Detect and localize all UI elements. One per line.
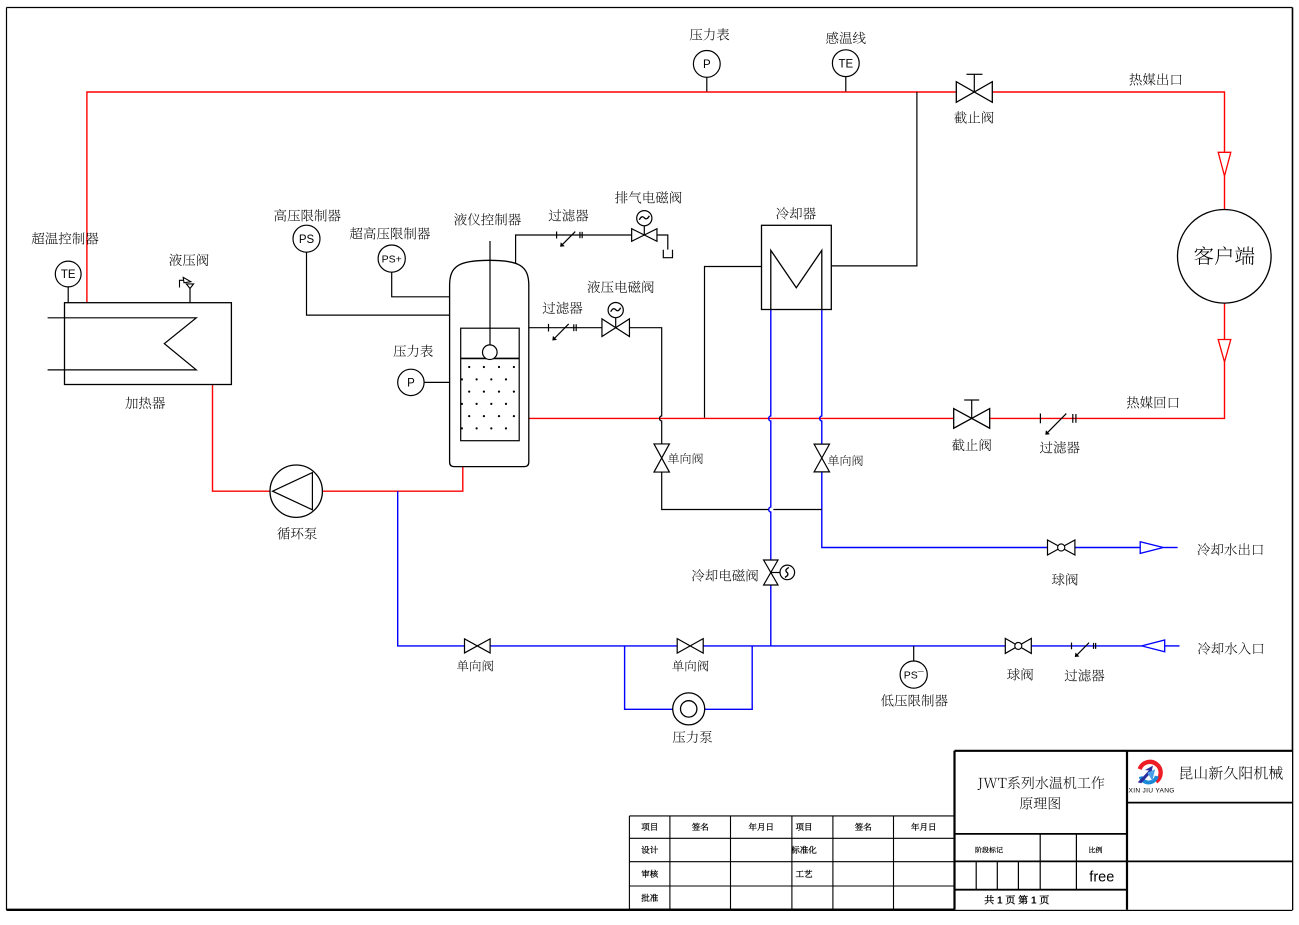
svg-text:XIN JIU YANG: XIN JIU YANG xyxy=(1129,788,1175,795)
svg-text:单向阀: 单向阀 xyxy=(828,452,864,469)
svg-text:工艺: 工艺 xyxy=(795,868,813,880)
svg-text:排气电磁阀: 排气电磁阀 xyxy=(615,187,683,207)
svg-text:P: P xyxy=(407,378,415,390)
svg-text:低压限制器: 低压限制器 xyxy=(881,690,949,710)
svg-text:阶段标记: 阶段标记 xyxy=(975,846,1003,856)
svg-text:超温控制器: 超温控制器 xyxy=(31,228,99,248)
svg-text:球阀: 球阀 xyxy=(1052,569,1079,589)
svg-text:冷却水入口: 冷却水入口 xyxy=(1197,638,1265,658)
svg-text:循环泵: 循环泵 xyxy=(277,523,318,543)
svg-text:过滤器: 过滤器 xyxy=(1040,437,1081,457)
svg-text:PS+: PS+ xyxy=(382,253,402,265)
svg-text:原理图: 原理图 xyxy=(1019,794,1061,814)
svg-text:客户端: 客户端 xyxy=(1194,240,1256,270)
svg-text:热媒回口: 热媒回口 xyxy=(1126,392,1180,412)
svg-text:free: free xyxy=(1089,870,1114,886)
svg-text:比例: 比例 xyxy=(1089,846,1103,856)
svg-text:冷却器: 冷却器 xyxy=(776,203,817,223)
svg-text:单向阀: 单向阀 xyxy=(457,657,495,675)
svg-text:年月日: 年月日 xyxy=(748,821,774,833)
svg-text:PS: PS xyxy=(299,234,315,246)
svg-text:液压电磁阀: 液压电磁阀 xyxy=(587,276,655,296)
svg-text:单向阀: 单向阀 xyxy=(668,450,704,467)
svg-text:签名: 签名 xyxy=(854,821,873,833)
svg-text:过滤器: 过滤器 xyxy=(1064,665,1105,685)
svg-text:签名: 签名 xyxy=(691,821,710,833)
svg-text:项目: 项目 xyxy=(641,821,658,833)
svg-text:昆山新久阳机械: 昆山新久阳机械 xyxy=(1178,763,1283,784)
svg-text:审核: 审核 xyxy=(641,868,659,880)
svg-text:单向阀: 单向阀 xyxy=(672,657,710,675)
svg-text:JWT系列水温机工作: JWT系列水温机工作 xyxy=(977,773,1105,793)
svg-text:项目: 项目 xyxy=(795,821,812,833)
svg-text:截止阀: 截止阀 xyxy=(951,434,992,454)
svg-text:过滤器: 过滤器 xyxy=(548,205,589,225)
svg-text:热媒出口: 热媒出口 xyxy=(1129,69,1183,89)
svg-text:液仪控制器: 液仪控制器 xyxy=(454,209,522,229)
svg-text:球阀: 球阀 xyxy=(1007,664,1034,684)
svg-text:年月日: 年月日 xyxy=(911,821,937,833)
svg-text:高压限制器: 高压限制器 xyxy=(274,205,342,225)
svg-text:冷却水出口: 冷却水出口 xyxy=(1197,539,1265,559)
svg-text:标准化: 标准化 xyxy=(790,844,817,856)
svg-text:过滤器: 过滤器 xyxy=(542,297,583,317)
svg-text:批准: 批准 xyxy=(641,892,659,904)
svg-text:冷却电磁阀: 冷却电磁阀 xyxy=(691,565,759,585)
svg-text:超高压限制器: 超高压限制器 xyxy=(349,223,430,243)
svg-text:PS¯: PS¯ xyxy=(904,669,924,681)
svg-text:TE: TE xyxy=(61,269,76,281)
svg-text:加热器: 加热器 xyxy=(125,392,166,412)
svg-text:液压阀: 液压阀 xyxy=(169,249,210,269)
svg-text:P: P xyxy=(703,59,711,71)
svg-text:感温线: 感温线 xyxy=(826,27,867,47)
svg-text:截止阀: 截止阀 xyxy=(954,107,995,127)
svg-text:压力表: 压力表 xyxy=(689,24,730,44)
svg-text:共 1 页 第 1 页: 共 1 页 第 1 页 xyxy=(984,892,1049,907)
svg-text:压力泵: 压力泵 xyxy=(672,726,713,746)
svg-text:TE: TE xyxy=(838,58,853,70)
svg-text:设计: 设计 xyxy=(641,844,659,856)
svg-text:压力表: 压力表 xyxy=(393,340,434,360)
